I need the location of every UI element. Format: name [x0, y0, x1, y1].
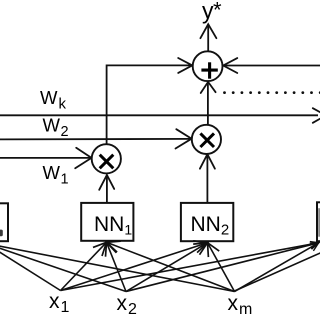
- svg-text:*: *: [213, 0, 222, 22]
